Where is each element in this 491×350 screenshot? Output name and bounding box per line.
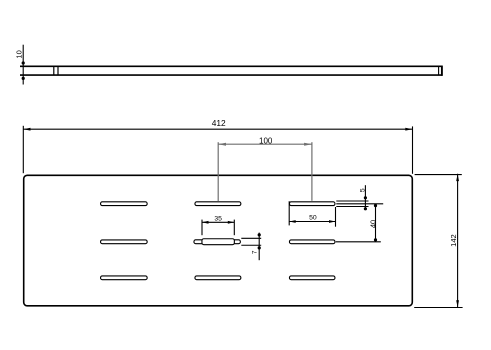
svg-text:7: 7	[252, 250, 259, 254]
svg-text:40: 40	[368, 220, 377, 228]
svg-text:5: 5	[359, 188, 366, 192]
svg-text:142: 142	[449, 234, 458, 247]
svg-text:35: 35	[214, 215, 222, 222]
svg-text:50: 50	[309, 215, 317, 222]
svg-text:412: 412	[212, 118, 226, 128]
svg-text:100: 100	[259, 136, 273, 145]
svg-text:10: 10	[14, 50, 23, 58]
